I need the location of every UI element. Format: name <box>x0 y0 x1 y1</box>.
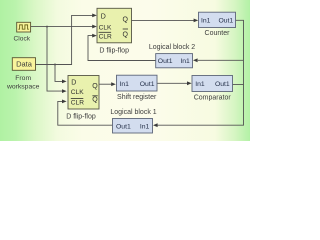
svg-text:Shift register: Shift register <box>117 94 157 101</box>
svg-text:In1: In1 <box>201 17 211 24</box>
Data source block <box>6 58 40 91</box>
svg-text:Out1: Out1 <box>158 58 173 65</box>
svg-text:Q: Q <box>123 16 129 23</box>
wire: Comparator Out1 right and down to Logical block 1 In1 <box>233 84 244 86</box>
arrow into bottom FF CLK <box>62 89 67 93</box>
arrow into Comparator In1 <box>187 81 192 85</box>
arrow into Shift register In1 <box>111 82 116 86</box>
svg-text:D flip-flop: D flip-flop <box>66 113 96 120</box>
Logical block 2 <box>149 44 195 68</box>
clock waveform icon <box>18 25 29 29</box>
arrow into Logical block 1 In1 (points left) <box>153 123 158 127</box>
svg-text:Logical block 1: Logical block 1 <box>110 109 156 116</box>
svg-text:In1: In1 <box>195 81 205 88</box>
arrow into bottom FF CLR <box>62 100 67 104</box>
Comparator block <box>192 76 233 102</box>
svg-text:Clock: Clock <box>14 35 31 42</box>
Shift register block <box>117 75 158 101</box>
svg-text:In1: In1 <box>180 58 190 65</box>
wire: tap from right-edge vertical into Logical block 2 In1 <box>198 59 244 61</box>
arrow into top FF CLR <box>92 34 97 38</box>
svg-text:workspace: workspace <box>6 83 40 90</box>
svg-text:CLK: CLK <box>99 25 112 32</box>
arrow into Counter In1 <box>194 19 199 23</box>
svg-text:Logical block 2: Logical block 2 <box>149 44 195 51</box>
svg-text:Comparator: Comparator <box>194 95 232 102</box>
wire: Counter Out1 right and down to Logical block 2 In1 <box>157 20 243 125</box>
svg-text:Q: Q <box>92 83 98 90</box>
wire: Clock to top D flip-flop CLK <box>31 26 93 28</box>
svg-text:CLR: CLR <box>71 99 84 106</box>
svg-text:D: D <box>71 79 76 86</box>
wire: Logical block 2 Out1 left and up to top FF CLR <box>88 36 156 61</box>
arrow into bottom FF D <box>62 80 67 84</box>
wire: Logical block 1 Out1 left and up to bottom FF CLR <box>58 101 113 125</box>
Counter block <box>199 12 236 37</box>
svg-text:CLK: CLK <box>71 89 84 96</box>
Clock source block <box>14 22 31 42</box>
wire: clock branch down to bottom D flip-flop CLK <box>47 27 65 92</box>
svg-text:Out1: Out1 <box>140 81 155 88</box>
wire: top FF Q output to Counter In1 <box>132 19 195 21</box>
arrow into Logical block 2 In1 (points left) <box>193 58 198 62</box>
svg-text:From: From <box>15 75 31 82</box>
arrowheads <box>62 14 198 128</box>
svg-text:In1: In1 <box>120 81 130 88</box>
svg-text:Q: Q <box>92 97 98 104</box>
wire: Data to top D flip-flop D input <box>36 15 93 64</box>
svg-text:Out1: Out1 <box>218 17 233 24</box>
wire: Shift register Out1 to Comparator In1 <box>157 82 190 84</box>
arrow into top FF CLK <box>92 25 97 29</box>
wire: data branch down to bottom D flip-flop D input <box>55 65 65 82</box>
wire: bottom FF Q output to Shift register In1 <box>99 83 113 85</box>
arrow into top FF D <box>92 14 97 18</box>
bottom D flip-flop U2 <box>66 76 99 121</box>
junction dot on data wire <box>54 64 56 66</box>
svg-text:In1: In1 <box>140 124 150 131</box>
svg-text:CLR: CLR <box>99 33 112 40</box>
top D flip-flop U1 <box>97 8 132 54</box>
svg-text:Data: Data <box>16 59 33 68</box>
Logical block 1 <box>110 109 156 133</box>
svg-text:Out1: Out1 <box>116 124 131 131</box>
svg-text:Out1: Out1 <box>215 81 230 88</box>
svg-text:D: D <box>101 14 106 21</box>
svg-text:Counter: Counter <box>205 30 231 37</box>
svg-text:Q: Q <box>123 31 129 38</box>
junction dot on clock wire <box>46 26 48 28</box>
svg-text:D flip-flop: D flip-flop <box>99 47 129 54</box>
